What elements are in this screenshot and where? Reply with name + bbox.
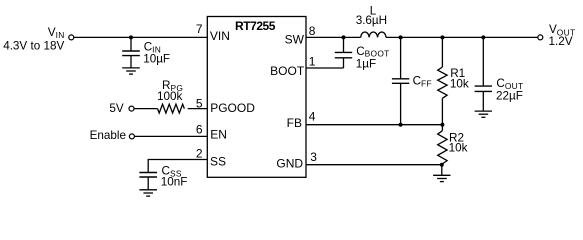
svg-text:4.3V to 18V: 4.3V to 18V [3,39,64,52]
wire VIN terminal to pin 7 [74,36,207,38]
capacitor C_OUT [475,37,492,111]
terminal Enable [129,134,134,139]
svg-text:22µF: 22µF [496,89,523,102]
svg-text:1: 1 [309,55,316,69]
svg-text:1µF: 1µF [356,57,376,70]
svg-text:SW: SW [285,33,305,47]
junction CFF top [399,35,403,39]
terminal 5V [129,106,134,111]
ground (CSS) [139,190,157,196]
capacitor C_FF [392,37,409,124]
junction R1 top [440,35,444,39]
wire FB pin 4 [306,124,442,126]
output terminal VOUT [538,35,543,40]
svg-text:1.2V: 1.2V [549,35,573,48]
wire pin 2 SS to CSS [148,160,207,173]
junction CBOOT [342,35,346,39]
junction COUT top [481,35,485,39]
svg-text:3: 3 [310,150,317,164]
capacitor C_BOOT [335,37,352,68]
inductor L [361,32,386,37]
svg-text:2: 2 [196,146,203,160]
svg-text:7: 7 [196,22,203,36]
capacitor C_SS [139,173,157,190]
resistor R2 [438,125,447,164]
wire inductor to VOUT terminal [386,36,538,38]
resistor R1 [438,37,447,124]
op-amp/IC U1 RT7255 body [207,17,306,178]
svg-text:100k: 100k [157,90,183,103]
ground (CIN) [122,68,140,74]
junction R1/R2 FB node [440,123,444,127]
svg-text:10nF: 10nF [161,176,188,189]
svg-text:8: 8 [309,24,316,38]
svg-text:EN: EN [210,128,227,142]
svg-text:5V: 5V [109,102,124,115]
junction CFF bottom [399,123,403,127]
wire RPG to pin 5 [188,108,208,110]
svg-text:GND: GND [276,157,303,171]
svg-text:SS: SS [210,154,226,168]
junction R2/GND [440,163,444,167]
ground (COUT) [475,111,492,117]
wire SW pin 8 to inductor [306,36,361,38]
svg-text:RT7255: RT7255 [235,19,276,33]
svg-text:6: 6 [196,123,203,137]
svg-text:4: 4 [309,109,316,123]
junction CIN [129,35,133,39]
wire 5V to RPG [134,108,157,110]
svg-text:10k: 10k [449,142,468,155]
wire GND pin 3 [306,164,442,166]
capacitor C_IN [122,37,140,68]
svg-text:Enable: Enable [90,129,126,142]
svg-text:BOOT: BOOT [270,64,305,78]
ground (R2/GND) [433,165,450,182]
wire Enable to pin 6 [135,135,208,137]
resistor RPG [158,104,185,113]
input terminal VIN [69,35,74,40]
svg-text:10µF: 10µF [143,52,170,65]
svg-text:3.6µH: 3.6µH [356,14,387,27]
svg-text:VIN: VIN [210,29,230,43]
svg-text:PGOOD: PGOOD [210,101,255,115]
wire BOOT pin 1 [306,67,344,69]
svg-text:10k: 10k [450,78,469,91]
svg-text:FB: FB [287,116,302,130]
